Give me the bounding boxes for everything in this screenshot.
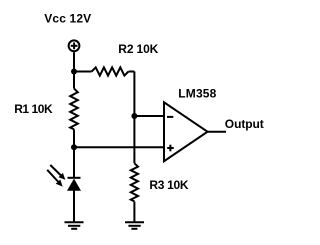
svg-text:LM358: LM358 bbox=[178, 86, 216, 100]
svg-text:Vcc 12V: Vcc 12V bbox=[44, 11, 91, 25]
svg-text:R3 10K: R3 10K bbox=[149, 178, 189, 192]
svg-text:R2 10K: R2 10K bbox=[118, 42, 158, 56]
svg-text:R1 10K: R1 10K bbox=[14, 102, 53, 116]
svg-text:Output: Output bbox=[225, 117, 264, 131]
